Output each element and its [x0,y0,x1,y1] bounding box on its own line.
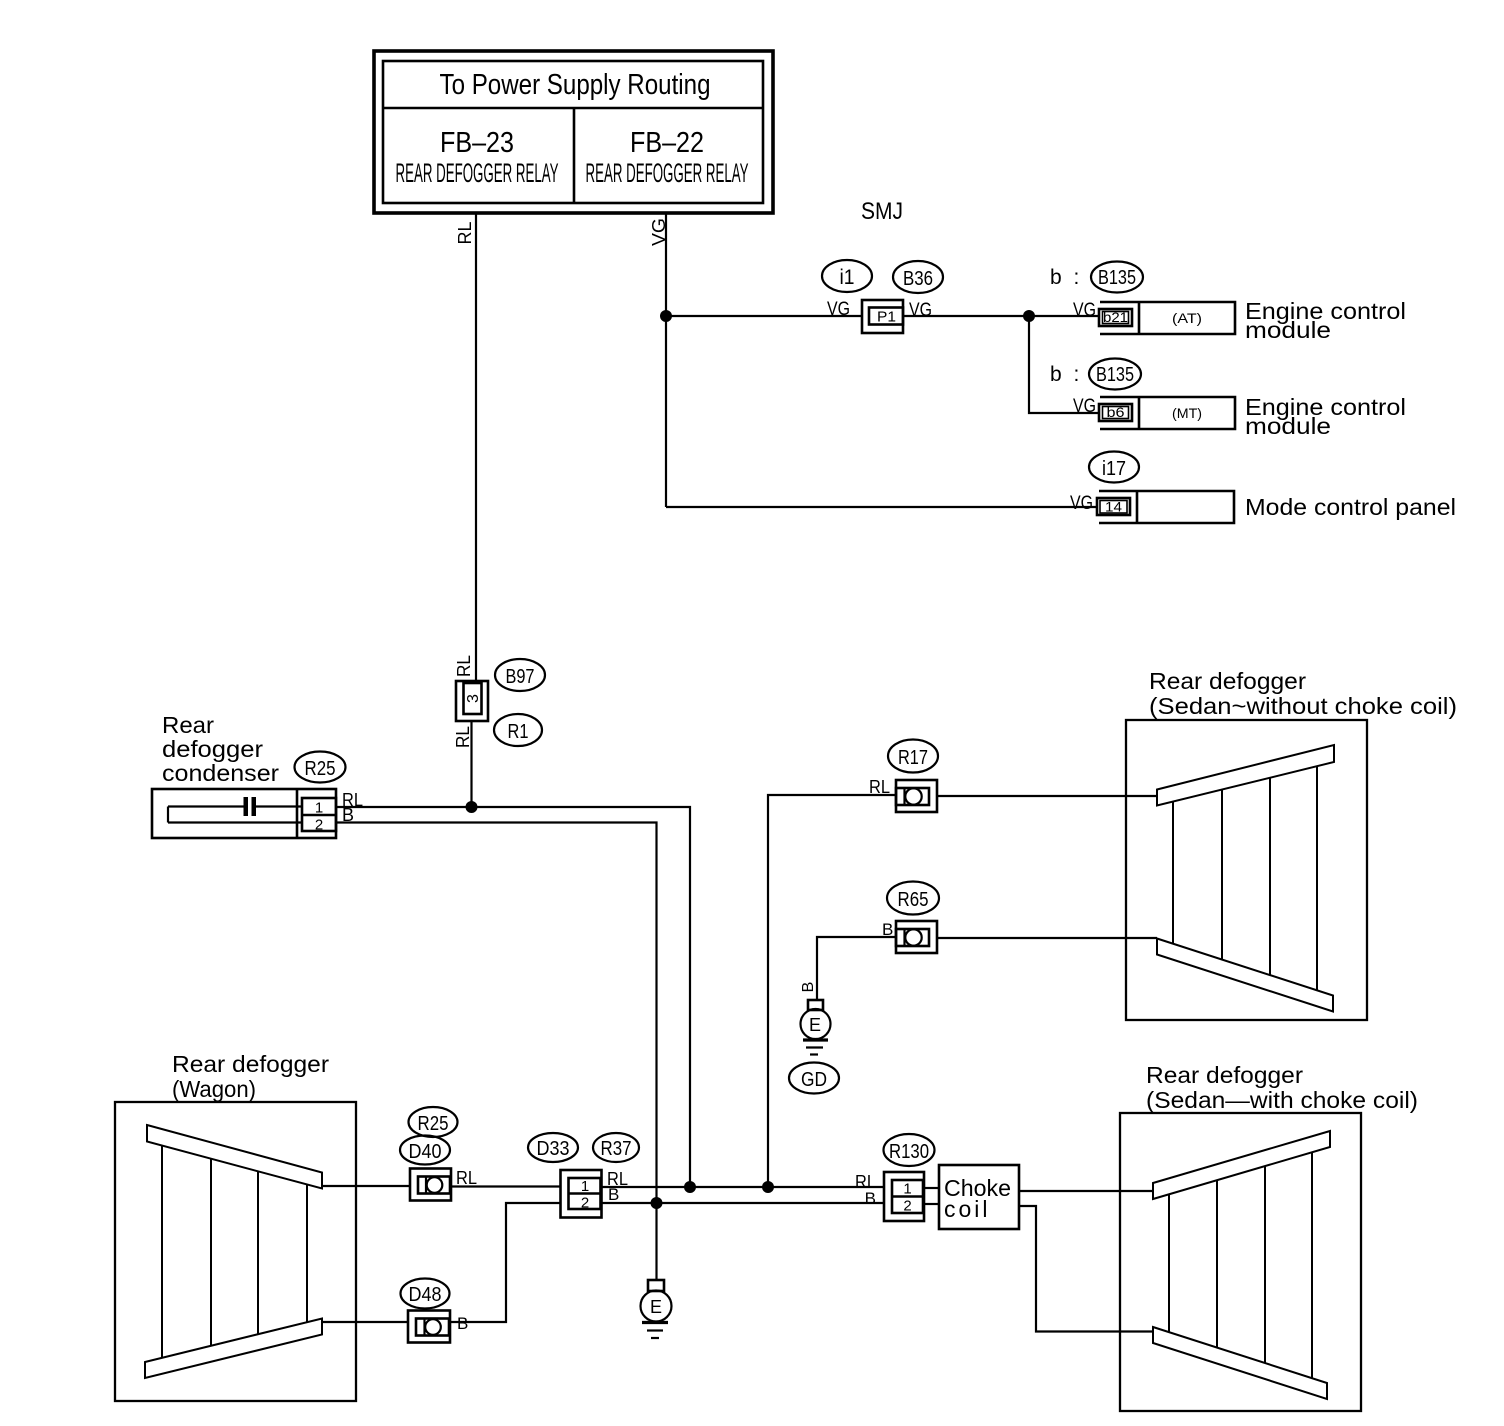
svg-text:R25: R25 [305,758,336,780]
svg-text:VG: VG [1070,493,1093,514]
svg-text:14: 14 [1105,499,1122,515]
ECM (AT) box [1100,302,1235,334]
svg-text:D48: D48 [409,1284,442,1306]
wire B to R65 [817,937,896,1000]
svg-text:2: 2 [581,1195,589,1212]
rear defogger sedan-with-choke-coil box [1120,1113,1361,1411]
fuse B97 "3" [456,681,488,721]
svg-text:GD: GD [801,1069,827,1091]
wire RL bus D33 to R130 [601,1186,884,1188]
wire RL from FB-23 [475,213,477,681]
svg-text:RL: RL [455,222,475,245]
connector ellipse B36 [893,261,943,293]
svg-text:B135: B135 [1096,364,1134,386]
svg-text:REAR DEFOGGER RELAY: REAR DEFOGGER RELAY [586,158,749,188]
defogger grid bottom bar (sedan 1) [1157,939,1333,1012]
connector pin b6 [1099,404,1132,421]
ground bars (GD) [803,1040,828,1055]
node RL bus x690 [684,1181,696,1193]
svg-text:SMJ: SMJ [861,198,903,225]
svg-text:B: B [882,920,893,939]
connector ellipse i1 [822,260,872,292]
connector ellipse R65 [887,882,939,915]
connector pin b21 [1099,309,1132,326]
wire choke coil to sedan2 top [1019,1190,1153,1192]
svg-text:VG: VG [1073,300,1096,321]
wire B condenser to ground column [336,823,657,1281]
connector ellipse R1 [494,714,542,746]
svg-text:B36: B36 [903,268,933,290]
connector ellipse B135 (AT row) [1091,262,1143,293]
connector pin 14 [1097,498,1130,515]
connector D33 [561,1170,602,1218]
defogger grid lines (wagon) [162,1146,307,1358]
svg-text:b21: b21 [1103,309,1128,325]
wire wagon to D48 [322,1321,408,1323]
svg-text:B135: B135 [1098,267,1136,289]
mode control panel box [1099,491,1234,523]
node RL bus x768 [762,1181,774,1193]
svg-text:D40: D40 [409,1141,442,1163]
defogger grid bottom bar (wagon) [145,1319,322,1379]
svg-text:condenser: condenser [162,760,279,786]
svg-text:coil: coil [944,1196,991,1222]
connector R130 [884,1172,924,1221]
wire D40 to D33 [451,1185,560,1187]
wire RL R17 to sedan window [937,795,1157,797]
ground connector box (E center) [648,1280,664,1291]
svg-text:E: E [650,1297,662,1317]
connector ellipse i17 [1089,452,1139,483]
defogger grid top bar (sedan 2) [1153,1131,1330,1199]
ground bars (center) [642,1323,668,1339]
ground connector box (GD) [808,1000,823,1010]
ground ellipse GD [789,1063,839,1094]
svg-text:B: B [457,1314,468,1333]
node VG branch junction [1023,310,1035,322]
svg-text:Rear defogger: Rear defogger [172,1051,329,1077]
connector ellipse R130 [884,1134,935,1166]
svg-text:B97: B97 [506,666,535,688]
svg-text:b :: b : [1050,266,1082,289]
svg-text:(MT): (MT) [1172,405,1202,421]
svg-text:D33: D33 [537,1138,570,1160]
svg-text:E: E [809,1015,821,1035]
node VG junction [660,310,672,322]
rear defogger wagon box [115,1102,356,1401]
svg-text:P1: P1 [877,309,896,326]
svg-text:Rear defogger: Rear defogger [1146,1062,1303,1088]
svg-text:b6: b6 [1107,404,1125,420]
svg-text:(AT): (AT) [1172,310,1202,326]
connector ellipse D48 [401,1279,450,1309]
defogger grid bottom bar (sedan 2) [1153,1327,1327,1399]
power supply routing box [374,51,773,213]
svg-text:VG: VG [1073,396,1096,417]
svg-text:RL: RL [456,1168,477,1188]
connector ellipse R17 [888,740,938,773]
svg-text:RL: RL [869,777,890,797]
svg-text:FB–22: FB–22 [630,127,704,159]
svg-text:To Power Supply Routing: To Power Supply Routing [440,69,711,101]
label Engine control module (MT) [1245,394,1406,439]
connector ellipse B135 (MT row) [1089,359,1141,390]
svg-text:module: module [1245,317,1331,343]
svg-text:VG: VG [649,218,669,246]
svg-text:1: 1 [903,1181,911,1198]
connector D48 [408,1311,450,1343]
svg-text:RL: RL [453,726,473,748]
defogger grid lines (sedan 1) [1173,766,1317,990]
label Rear defogger condenser [162,712,279,786]
wire RL condenser bus to lower bus [336,807,690,1187]
wire RL fuse to bus [470,721,472,807]
svg-text:i17: i17 [1102,458,1126,480]
rear defogger condenser [152,789,336,838]
wire D48 to D33 pin 2 [450,1203,560,1322]
label Rear defogger (Wagon) [172,1051,329,1102]
connector ellipse R25 (above D40) [409,1107,458,1137]
svg-text:b :: b : [1050,363,1082,386]
ground E (center) [641,1291,672,1322]
wire choke coil to sedan2 bottom [1019,1206,1153,1332]
svg-text:FB–23: FB–23 [440,127,514,159]
wire B R65 to sedan window [937,937,1157,939]
svg-text:(Sedan—with choke coil): (Sedan—with choke coil) [1146,1087,1418,1113]
svg-text:(Sedan~without choke coil): (Sedan~without choke coil) [1149,693,1457,719]
svg-text:R25: R25 [418,1113,449,1135]
svg-text:Mode control panel: Mode control panel [1245,494,1456,520]
svg-text:i1: i1 [840,266,855,289]
connector ellipse R37 [593,1133,639,1162]
connector D40 [410,1169,451,1201]
rear defogger sedan-without-choke-coil box [1126,720,1367,1020]
svg-text:(Wagon): (Wagon) [172,1076,256,1102]
svg-text:Rear defogger: Rear defogger [1149,668,1306,694]
connector P1 (SMJ) [862,300,903,333]
choke coil box [939,1165,1019,1229]
svg-text:B: B [800,982,817,993]
svg-text:3: 3 [465,694,482,703]
svg-text:2: 2 [315,817,323,834]
wire VG to P1 [666,315,862,317]
svg-text:R17: R17 [898,747,928,769]
ECM (MT) box [1100,397,1235,429]
connector ellipse R25 [295,752,346,783]
wire VG from FB-22 [665,213,667,507]
wire wagon to D40 [322,1185,410,1187]
ground E (GD) [801,1009,831,1039]
svg-text:2: 2 [903,1198,911,1215]
wire B bus D33 to R130 [601,1202,884,1204]
svg-text:Rear: Rear [162,712,214,738]
svg-text:defogger: defogger [162,736,263,762]
svg-text:R37: R37 [601,1138,632,1160]
defogger grid top bar (sedan 1) [1157,745,1334,806]
connector ellipse B97 [495,659,545,691]
wire VG to mode control panel [666,506,1097,508]
svg-text:RL: RL [454,655,474,677]
label Engine control module (AT) [1245,298,1406,343]
svg-text:1: 1 [315,800,323,817]
wire VG branch to ECM(MT) [1029,316,1099,413]
label Rear defogger (Sedan-without choke coil) [1149,668,1457,719]
svg-text:1: 1 [581,1178,589,1195]
wire R130 pin1 to choke coil [923,1187,939,1189]
node B bus ground junction [651,1197,663,1209]
defogger grid top bar (wagon) [147,1125,322,1189]
wire VG P1 to ECM(AT) [903,315,1099,317]
label Rear defogger (Sedan-with choke coil) [1146,1062,1418,1113]
wire R130 pin2 to choke coil [923,1203,939,1205]
svg-text:module: module [1245,413,1331,439]
svg-text:VG: VG [827,299,850,320]
connector ellipse D33 [528,1133,578,1162]
connector R17 [896,780,937,812]
node RL fuse junction [466,801,478,813]
svg-text:VG: VG [909,300,932,321]
svg-text:REAR DEFOGGER RELAY: REAR DEFOGGER RELAY [396,158,559,188]
wire RL branch to R17 [768,795,896,1187]
svg-text:R1: R1 [508,721,529,743]
connector R65 [896,921,937,953]
connector ellipse D40 [400,1136,450,1165]
svg-text:R130: R130 [889,1141,929,1163]
defogger grid lines (sedan 2) [1169,1152,1312,1378]
svg-text:B: B [865,1189,876,1208]
svg-text:R65: R65 [898,889,929,911]
